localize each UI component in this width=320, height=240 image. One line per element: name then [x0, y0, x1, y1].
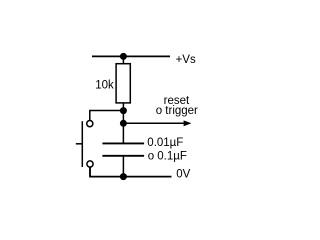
wire: 0V rail [90, 167, 172, 176]
wire: switch bottom terminal down to 0V rail [89, 167, 91, 176]
switch SW1 bottom terminal circle [87, 161, 93, 167]
wire: +Vs supply rail [92, 55, 170, 57]
svg-text:0V: 0V [176, 169, 190, 181]
svg-text:10k: 10k [95, 79, 114, 91]
svg-text:o 0.1µF: o 0.1µF [148, 150, 187, 162]
wire: junction left to switch top terminal [90, 111, 124, 121]
capacitor C1 top plate [102, 142, 144, 144]
wire: trigger output line [123, 122, 184, 124]
node: junction on +Vs rail [120, 53, 127, 60]
wire: capacitor bottom plate down to 0V rail [122, 156, 124, 177]
resistor R1 body [116, 64, 130, 103]
node: junction at trigger output [120, 120, 127, 127]
arrowhead: trigger output [184, 120, 192, 126]
capacitor C1 bottom plate [102, 155, 144, 157]
svg-text:0.01µF: 0.01µF [147, 137, 183, 149]
wire: resistor bottom down to capacitor top plate [122, 103, 124, 143]
node: junction on 0V rail [120, 173, 127, 180]
switch SW1 actuator stub [76, 143, 83, 145]
wire: rail to resistor top pin [122, 56, 124, 64]
svg-text:o trigger: o trigger [156, 105, 198, 117]
node: junction to reset switch [120, 107, 127, 114]
svg-text:+Vs: +Vs [176, 54, 196, 66]
switch SW1 top terminal circle [87, 121, 93, 127]
switch SW1 bar [81, 121, 83, 167]
